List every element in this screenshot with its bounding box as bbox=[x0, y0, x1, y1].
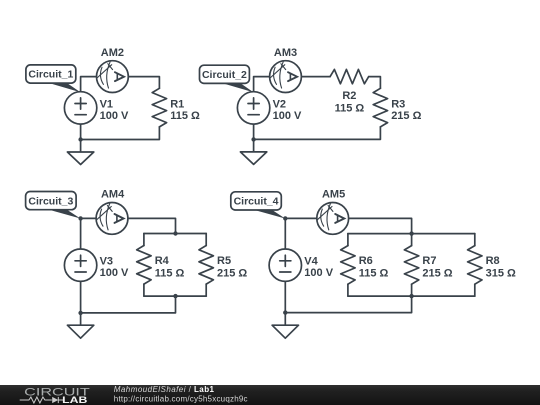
wire R1 bottom to bottom rail bbox=[81, 127, 160, 140]
resistor R3 bbox=[373, 88, 387, 127]
resistor R6 bbox=[341, 246, 355, 285]
junction dot circuit1 bottom bbox=[78, 137, 82, 141]
wire V3 bottom to ground bbox=[80, 281, 82, 325]
junction dot circuit4 bottom rail bbox=[409, 294, 413, 298]
svg-text:115 Ω: 115 Ω bbox=[170, 110, 200, 122]
svg-text:V4: V4 bbox=[304, 256, 318, 268]
svg-text:R7: R7 bbox=[422, 255, 436, 267]
junction dot circuit3 bottom-left bbox=[78, 311, 82, 315]
wire V1 top to AM2 left bbox=[81, 77, 97, 92]
ground circuit2 bbox=[240, 152, 266, 165]
svg-text:V3: V3 bbox=[100, 256, 113, 268]
junction dot circuit4 top rail bbox=[409, 231, 413, 235]
ammeter AM2 bbox=[97, 61, 129, 93]
svg-text:R6: R6 bbox=[359, 255, 373, 267]
wire AM5 right to top rail bbox=[349, 218, 412, 233]
resistor R4 bbox=[137, 246, 151, 285]
callout Circuit_2 bbox=[200, 65, 254, 92]
svg-text:Circuit_1: Circuit_1 bbox=[28, 69, 73, 81]
wire junction down to V3 top bbox=[80, 218, 82, 249]
ammeter AM4 bbox=[96, 203, 128, 235]
wire junction down to V4 top bbox=[284, 218, 286, 249]
svg-text:AM2: AM2 bbox=[101, 47, 124, 59]
svg-text:R2: R2 bbox=[342, 90, 356, 102]
junction dot circuit3 top rail bbox=[173, 231, 177, 235]
svg-text:100 V: 100 V bbox=[304, 267, 333, 279]
svg-text:V1: V1 bbox=[100, 98, 113, 110]
wire AM4 right to top rail bbox=[128, 218, 176, 233]
voltage source V3 bbox=[64, 249, 96, 281]
wire junction to AM4 left bbox=[81, 217, 97, 219]
wire AM2 right to R1 top bbox=[128, 77, 159, 89]
callout Circuit_4 bbox=[231, 192, 285, 219]
wire V1 bottom to ground bbox=[80, 124, 82, 152]
svg-text:100 V: 100 V bbox=[100, 267, 129, 279]
voltage source V2 bbox=[237, 92, 269, 124]
wire V4 bottom to ground bbox=[284, 281, 286, 325]
logo wire-resistor-diode bbox=[20, 397, 64, 403]
svg-text:215 Ω: 215 Ω bbox=[422, 267, 452, 279]
svg-text:100 V: 100 V bbox=[100, 110, 129, 122]
svg-text:Circuit_3: Circuit_3 bbox=[28, 195, 73, 207]
junction dot circuit2 bottom bbox=[251, 137, 255, 141]
top rail circuit3 bbox=[144, 233, 206, 235]
wire V2 top to AM3 left bbox=[254, 77, 270, 92]
wire R2 right to R3 top bbox=[369, 77, 381, 89]
svg-text:215 Ω: 215 Ω bbox=[217, 267, 247, 279]
svg-text:V2: V2 bbox=[273, 98, 286, 110]
wire junction to AM5 left bbox=[285, 217, 317, 219]
logo diode triangle bbox=[52, 397, 58, 403]
svg-text:R1: R1 bbox=[170, 99, 184, 111]
bottom rail circuit3 bbox=[144, 295, 206, 297]
svg-text:115 Ω: 115 Ω bbox=[335, 102, 365, 114]
resistor R7 bbox=[404, 246, 418, 285]
wire V2 bottom to ground bbox=[253, 124, 255, 152]
R6 stubs bbox=[347, 234, 349, 297]
svg-text:Circuit_4: Circuit_4 bbox=[234, 196, 279, 208]
callout Circuit_3 bbox=[26, 192, 81, 219]
resistor R5 bbox=[199, 246, 213, 285]
ground circuit3 bbox=[67, 325, 93, 338]
wire R3 bottom to bottom rail bbox=[254, 127, 381, 139]
svg-text:115 Ω: 115 Ω bbox=[155, 267, 185, 279]
svg-text:Circuit_2: Circuit_2 bbox=[202, 69, 247, 81]
top rail circuit4 bbox=[348, 233, 475, 235]
resistor R2 bbox=[330, 69, 369, 83]
wire bottom rail to V3 column bbox=[81, 296, 176, 313]
ground circuit1 bbox=[67, 152, 93, 165]
bottom rail circuit4 bbox=[348, 295, 475, 297]
svg-text:R4: R4 bbox=[155, 255, 170, 267]
ammeter AM5 bbox=[317, 203, 349, 235]
R5 stubs bbox=[205, 234, 207, 297]
junction dot circuit3 top-left bbox=[78, 216, 82, 220]
svg-text:AM5: AM5 bbox=[322, 188, 345, 200]
svg-text:100 V: 100 V bbox=[273, 110, 302, 122]
svg-text:AM3: AM3 bbox=[274, 47, 297, 59]
svg-text:R3: R3 bbox=[391, 99, 405, 111]
callout Circuit_1 bbox=[26, 65, 81, 92]
R4 stubs bbox=[143, 234, 145, 297]
resistor R1 bbox=[152, 88, 166, 127]
svg-text:R8: R8 bbox=[486, 255, 500, 267]
svg-text:215 Ω: 215 Ω bbox=[391, 110, 421, 122]
R7 stubs bbox=[411, 234, 413, 297]
svg-text:LAB: LAB bbox=[62, 395, 88, 405]
svg-text:R5: R5 bbox=[217, 255, 231, 267]
junction dot circuit3 bottom rail bbox=[173, 294, 177, 298]
wire bottom rail to V4 column bbox=[285, 296, 411, 313]
ground circuit4 bbox=[272, 325, 298, 338]
wire AM3 right to R2 left bbox=[302, 76, 331, 78]
svg-text:AM4: AM4 bbox=[101, 188, 125, 200]
junction dot circuit4 top-left bbox=[283, 216, 287, 220]
svg-text:MahmoudElShafei / Lab1: MahmoudElShafei / Lab1 bbox=[114, 385, 215, 394]
voltage source V4 bbox=[269, 249, 301, 281]
R8 stubs bbox=[474, 234, 476, 297]
resistor R8 bbox=[468, 246, 482, 285]
svg-text:115 Ω: 115 Ω bbox=[359, 267, 389, 279]
svg-text:315 Ω: 315 Ω bbox=[486, 267, 516, 279]
ammeter AM3 bbox=[270, 61, 302, 93]
junction dot circuit4 bottom-left bbox=[283, 310, 287, 314]
voltage source V1 bbox=[64, 92, 96, 124]
svg-text:http://circuitlab.com/cy5h5xcu: http://circuitlab.com/cy5h5xcuqzh9c bbox=[114, 395, 248, 404]
